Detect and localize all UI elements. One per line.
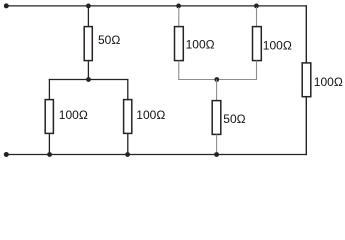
wire middle mid bus horizontal (gray) xyxy=(178,79,257,81)
junction bottom of R6 xyxy=(214,152,219,157)
wire stub top bus to R5 (gray) xyxy=(256,7,258,27)
wire R6 bottom stub (gray) xyxy=(216,135,218,155)
resistor R7 100ohm body xyxy=(302,63,311,97)
wire mid node down to R6 (gray) xyxy=(216,80,218,101)
resistor R1 50ohm body xyxy=(84,27,92,61)
svg-text:100Ω: 100Ω xyxy=(314,75,343,89)
junction top of R4 xyxy=(176,4,181,9)
wire bottom bus xyxy=(6,154,307,156)
svg-text:50Ω: 50Ω xyxy=(98,33,120,47)
svg-text:100Ω: 100Ω xyxy=(263,38,292,52)
junction top of R1 xyxy=(86,4,91,9)
resistor R4 100ohm body xyxy=(175,27,184,61)
resistor R6 50ohm body xyxy=(212,101,221,135)
wire stub top bus to R1 xyxy=(87,6,89,27)
wire left mid bus horizontal xyxy=(49,79,129,81)
resistor R5 100ohm body xyxy=(253,27,262,61)
wire right vertical top bus to R7 xyxy=(305,5,307,63)
svg-text:100Ω: 100Ω xyxy=(59,108,88,122)
wire R3 bottom stub xyxy=(127,134,129,155)
wire left mid bus drop to R2 xyxy=(48,79,50,100)
junction top of R5 xyxy=(254,4,259,9)
wire top bus xyxy=(6,5,307,7)
resistor R3 100ohm body xyxy=(124,100,132,134)
wire R1 bottom to left mid node xyxy=(87,61,89,80)
node A (left top terminal) xyxy=(4,3,9,8)
resistor R2 100ohm body xyxy=(45,100,53,134)
junction left mid node xyxy=(86,77,91,82)
junction bottom of R2 xyxy=(47,152,52,157)
svg-text:100Ω: 100Ω xyxy=(136,108,165,122)
svg-text:50Ω: 50Ω xyxy=(223,112,245,126)
node B (left bottom terminal) xyxy=(4,152,9,157)
junction middle mid node xyxy=(214,77,219,82)
wire R5 bottom to mid bus (gray) xyxy=(256,61,258,80)
wire stub top bus to R4 (gray) xyxy=(178,7,180,27)
wire R2 bottom stub xyxy=(48,134,50,155)
svg-text:100Ω: 100Ω xyxy=(186,38,215,52)
wire left mid bus drop to R3 xyxy=(127,79,129,100)
wire right vertical R7 to bottom bus xyxy=(305,97,307,155)
junction bottom of R3 xyxy=(125,152,130,157)
wire R4 bottom to mid bus (gray) xyxy=(178,61,180,80)
